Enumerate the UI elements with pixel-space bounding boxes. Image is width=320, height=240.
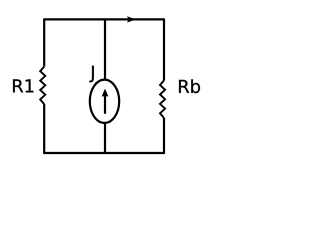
label J <box>89 66 93 83</box>
label Rb <box>179 79 200 93</box>
current direction arrow on top wire <box>127 16 136 22</box>
resistor Rb <box>160 80 165 118</box>
current source J ellipse <box>90 80 119 123</box>
wire left lower <box>43 104 45 154</box>
wire middle lower <box>104 123 106 154</box>
label R1 <box>13 79 33 92</box>
wire right lower <box>163 118 165 154</box>
wire bottom <box>44 152 164 154</box>
wire middle upper <box>104 19 106 80</box>
wire right upper <box>163 18 165 80</box>
current source arrow <box>102 89 109 114</box>
wire left upper <box>43 18 45 66</box>
wire top <box>44 18 164 20</box>
resistor R1 <box>40 67 45 105</box>
